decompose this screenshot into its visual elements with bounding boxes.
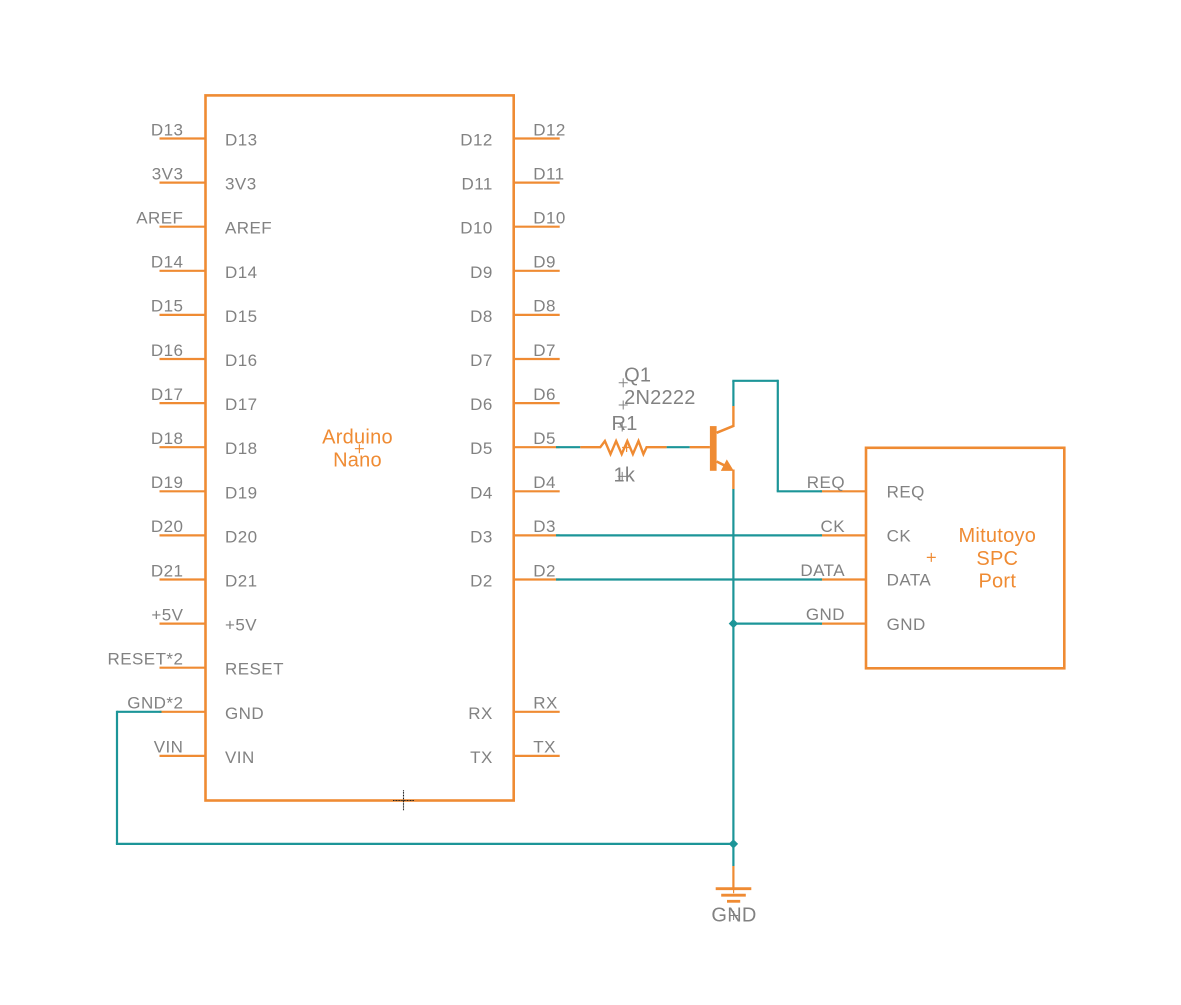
svg-text:GND: GND xyxy=(887,615,926,634)
pin VIN (U1 left) xyxy=(160,748,255,767)
U1 anchor cross xyxy=(355,444,364,453)
ground label anchor xyxy=(729,911,738,920)
ground lead xyxy=(732,866,734,888)
pin D10 (U1 right) xyxy=(460,219,559,238)
svg-text:CK: CK xyxy=(887,527,912,546)
svg-text:D2: D2 xyxy=(533,561,556,580)
svg-text:D12: D12 xyxy=(460,131,493,150)
svg-text:D7: D7 xyxy=(533,341,556,360)
pin D2 (U1 right) xyxy=(470,572,560,591)
svg-text:Mitutoyo: Mitutoyo xyxy=(959,525,1037,547)
svg-text:D3: D3 xyxy=(470,527,493,546)
wire D3 to CK xyxy=(556,534,822,536)
wire bottom ground rail xyxy=(116,843,734,845)
wire REQ horizontal xyxy=(777,490,822,492)
transistor Q1 body xyxy=(710,406,734,489)
wire down to REQ xyxy=(777,380,779,492)
svg-text:Arduino: Arduino xyxy=(322,426,393,448)
transistor Q1 base lead xyxy=(690,446,710,448)
pin RX (U1 right) xyxy=(468,704,559,723)
svg-text:REQ: REQ xyxy=(887,483,925,502)
svg-text:Port: Port xyxy=(978,570,1016,592)
svg-text:D13: D13 xyxy=(225,131,258,150)
pin REQ (J1) xyxy=(820,483,925,502)
pin GND (J1) xyxy=(820,615,926,634)
Q1 value anchor xyxy=(619,401,628,410)
pin D7 (U1 right) xyxy=(470,351,560,370)
pin D17 (U1 left) xyxy=(160,395,258,414)
svg-text:AREF: AREF xyxy=(136,209,183,228)
svg-text:D21: D21 xyxy=(151,561,184,580)
J1 title Mitutoyo SPC Port xyxy=(959,525,1037,592)
pin 3V3 (U1 left) xyxy=(160,175,257,194)
svg-text:AREF: AREF xyxy=(225,219,272,238)
svg-text:D4: D4 xyxy=(470,483,493,502)
wire Q1 collector up segment xyxy=(732,381,734,406)
pin D3 (U1 right) xyxy=(470,527,560,546)
pin D4 (U1 right) xyxy=(470,483,560,502)
svg-text:D8: D8 xyxy=(533,297,556,316)
wire left vertical down xyxy=(116,711,118,844)
R1 anchor cross xyxy=(622,443,631,452)
svg-text:D5: D5 xyxy=(533,429,556,448)
svg-text:D10: D10 xyxy=(460,219,493,238)
svg-text:D10: D10 xyxy=(533,209,566,228)
pin D18 (U1 left) xyxy=(160,439,258,458)
svg-text:VIN: VIN xyxy=(225,748,255,767)
svg-text:D5: D5 xyxy=(470,439,493,458)
svg-text:RX: RX xyxy=(533,694,558,713)
wire R1 to Q1 base xyxy=(667,446,690,448)
svg-text:D14: D14 xyxy=(151,253,184,272)
svg-text:D6: D6 xyxy=(533,385,556,404)
svg-text:SPC: SPC xyxy=(976,548,1018,570)
pin GND (U1 left) xyxy=(160,704,265,723)
wire D5 pin to R1 xyxy=(556,446,580,448)
svg-text:RESET: RESET xyxy=(225,660,284,679)
svg-text:GND: GND xyxy=(806,605,845,624)
ground anchor cross xyxy=(729,884,738,893)
pin D15 (U1 left) xyxy=(160,307,258,326)
svg-text:REQ: REQ xyxy=(807,473,845,492)
svg-text:D2: D2 xyxy=(470,572,493,591)
pin D16 (U1 left) xyxy=(160,351,258,370)
svg-text:D18: D18 xyxy=(151,429,184,448)
pin D21 (U1 left) xyxy=(160,572,258,591)
U1 title Arduino Nano xyxy=(322,426,393,471)
svg-text:Q1: Q1 xyxy=(624,364,651,386)
junction at ground rail xyxy=(729,839,738,848)
svg-text:D11: D11 xyxy=(533,164,564,183)
svg-text:D16: D16 xyxy=(225,351,258,370)
svg-text:TX: TX xyxy=(470,748,493,767)
svg-text:2N2222: 2N2222 xyxy=(624,387,696,409)
pin D20 (U1 left) xyxy=(160,527,258,546)
svg-text:DATA: DATA xyxy=(887,571,932,590)
svg-text:D11: D11 xyxy=(462,175,493,194)
pin AREF (U1 left) xyxy=(160,219,273,238)
svg-text:D19: D19 xyxy=(151,473,184,492)
origin marker xyxy=(393,790,414,810)
pin DATA (J1) xyxy=(820,571,931,590)
wire Q1 emitter down xyxy=(732,489,734,844)
ground symbol xyxy=(716,889,752,902)
svg-text:D12: D12 xyxy=(533,120,566,139)
svg-text:D7: D7 xyxy=(470,351,493,370)
svg-text:D4: D4 xyxy=(533,473,556,492)
pin +5V (U1 left) xyxy=(160,616,258,635)
svg-text:D20: D20 xyxy=(151,517,184,536)
svg-text:+5V: +5V xyxy=(151,605,183,624)
pin RESET (U1 left) xyxy=(160,660,284,679)
junction at GND net xyxy=(729,619,738,628)
wire GND*2 from U1 GND pin xyxy=(117,711,162,713)
pin D19 (U1 left) xyxy=(160,483,258,502)
Q1 designator anchor xyxy=(619,378,628,387)
svg-text:VIN: VIN xyxy=(154,738,184,757)
svg-text:D21: D21 xyxy=(225,572,258,591)
svg-text:CK: CK xyxy=(820,517,845,536)
svg-text:1k: 1k xyxy=(614,465,636,487)
svg-text:D19: D19 xyxy=(225,483,258,502)
svg-text:D3: D3 xyxy=(533,517,556,536)
svg-text:Nano: Nano xyxy=(333,450,382,472)
pin D14 (U1 left) xyxy=(160,263,258,282)
svg-text:D17: D17 xyxy=(225,395,258,414)
svg-text:D15: D15 xyxy=(225,307,258,326)
pin TX (U1 right) xyxy=(470,748,560,767)
pin D9 (U1 right) xyxy=(470,263,560,282)
svg-text:D15: D15 xyxy=(151,297,184,316)
svg-text:D9: D9 xyxy=(470,263,493,282)
svg-text:+5V: +5V xyxy=(225,616,257,635)
svg-text:D9: D9 xyxy=(533,253,556,272)
wire collector top horizontal xyxy=(732,380,778,382)
J1 anchor cross xyxy=(927,553,936,562)
pin D6 (U1 right) xyxy=(470,395,560,414)
wire D2 to DATA xyxy=(556,578,822,580)
svg-text:GND: GND xyxy=(225,704,264,723)
svg-text:RX: RX xyxy=(468,704,493,723)
pin D8 (U1 right) xyxy=(470,307,560,326)
wire junction to ground symbol xyxy=(732,844,734,866)
svg-text:D13: D13 xyxy=(151,120,184,139)
pin D13 (U1 left) xyxy=(160,131,258,150)
component J1 Mitutoyo SPC Port body xyxy=(866,448,1064,669)
R1 value anchor xyxy=(618,472,627,481)
svg-text:R1: R1 xyxy=(612,413,638,435)
svg-text:D18: D18 xyxy=(225,439,258,458)
wire GND junction to J1 GND pin xyxy=(733,622,822,624)
svg-text:3V3: 3V3 xyxy=(225,175,257,194)
svg-text:D14: D14 xyxy=(225,263,258,282)
svg-text:D6: D6 xyxy=(470,395,493,414)
pin D12 (U1 right) xyxy=(460,131,559,150)
svg-text:D8: D8 xyxy=(470,307,493,326)
component U1 Arduino Nano body xyxy=(206,95,514,800)
resistor R1 xyxy=(580,441,666,454)
pin D5 (U1 right) xyxy=(470,439,560,458)
svg-text:D16: D16 xyxy=(151,341,184,360)
svg-text:D20: D20 xyxy=(225,527,258,546)
svg-text:TX: TX xyxy=(533,738,556,757)
pin CK (J1) xyxy=(820,527,911,546)
svg-text:D17: D17 xyxy=(151,385,184,404)
R1 designator anchor xyxy=(618,423,627,432)
svg-text:GND*2: GND*2 xyxy=(127,694,183,713)
pin D11 (U1 right) xyxy=(462,175,560,194)
svg-text:3V3: 3V3 xyxy=(152,164,184,183)
svg-text:DATA: DATA xyxy=(800,561,845,580)
svg-text:RESET*2: RESET*2 xyxy=(107,650,183,669)
